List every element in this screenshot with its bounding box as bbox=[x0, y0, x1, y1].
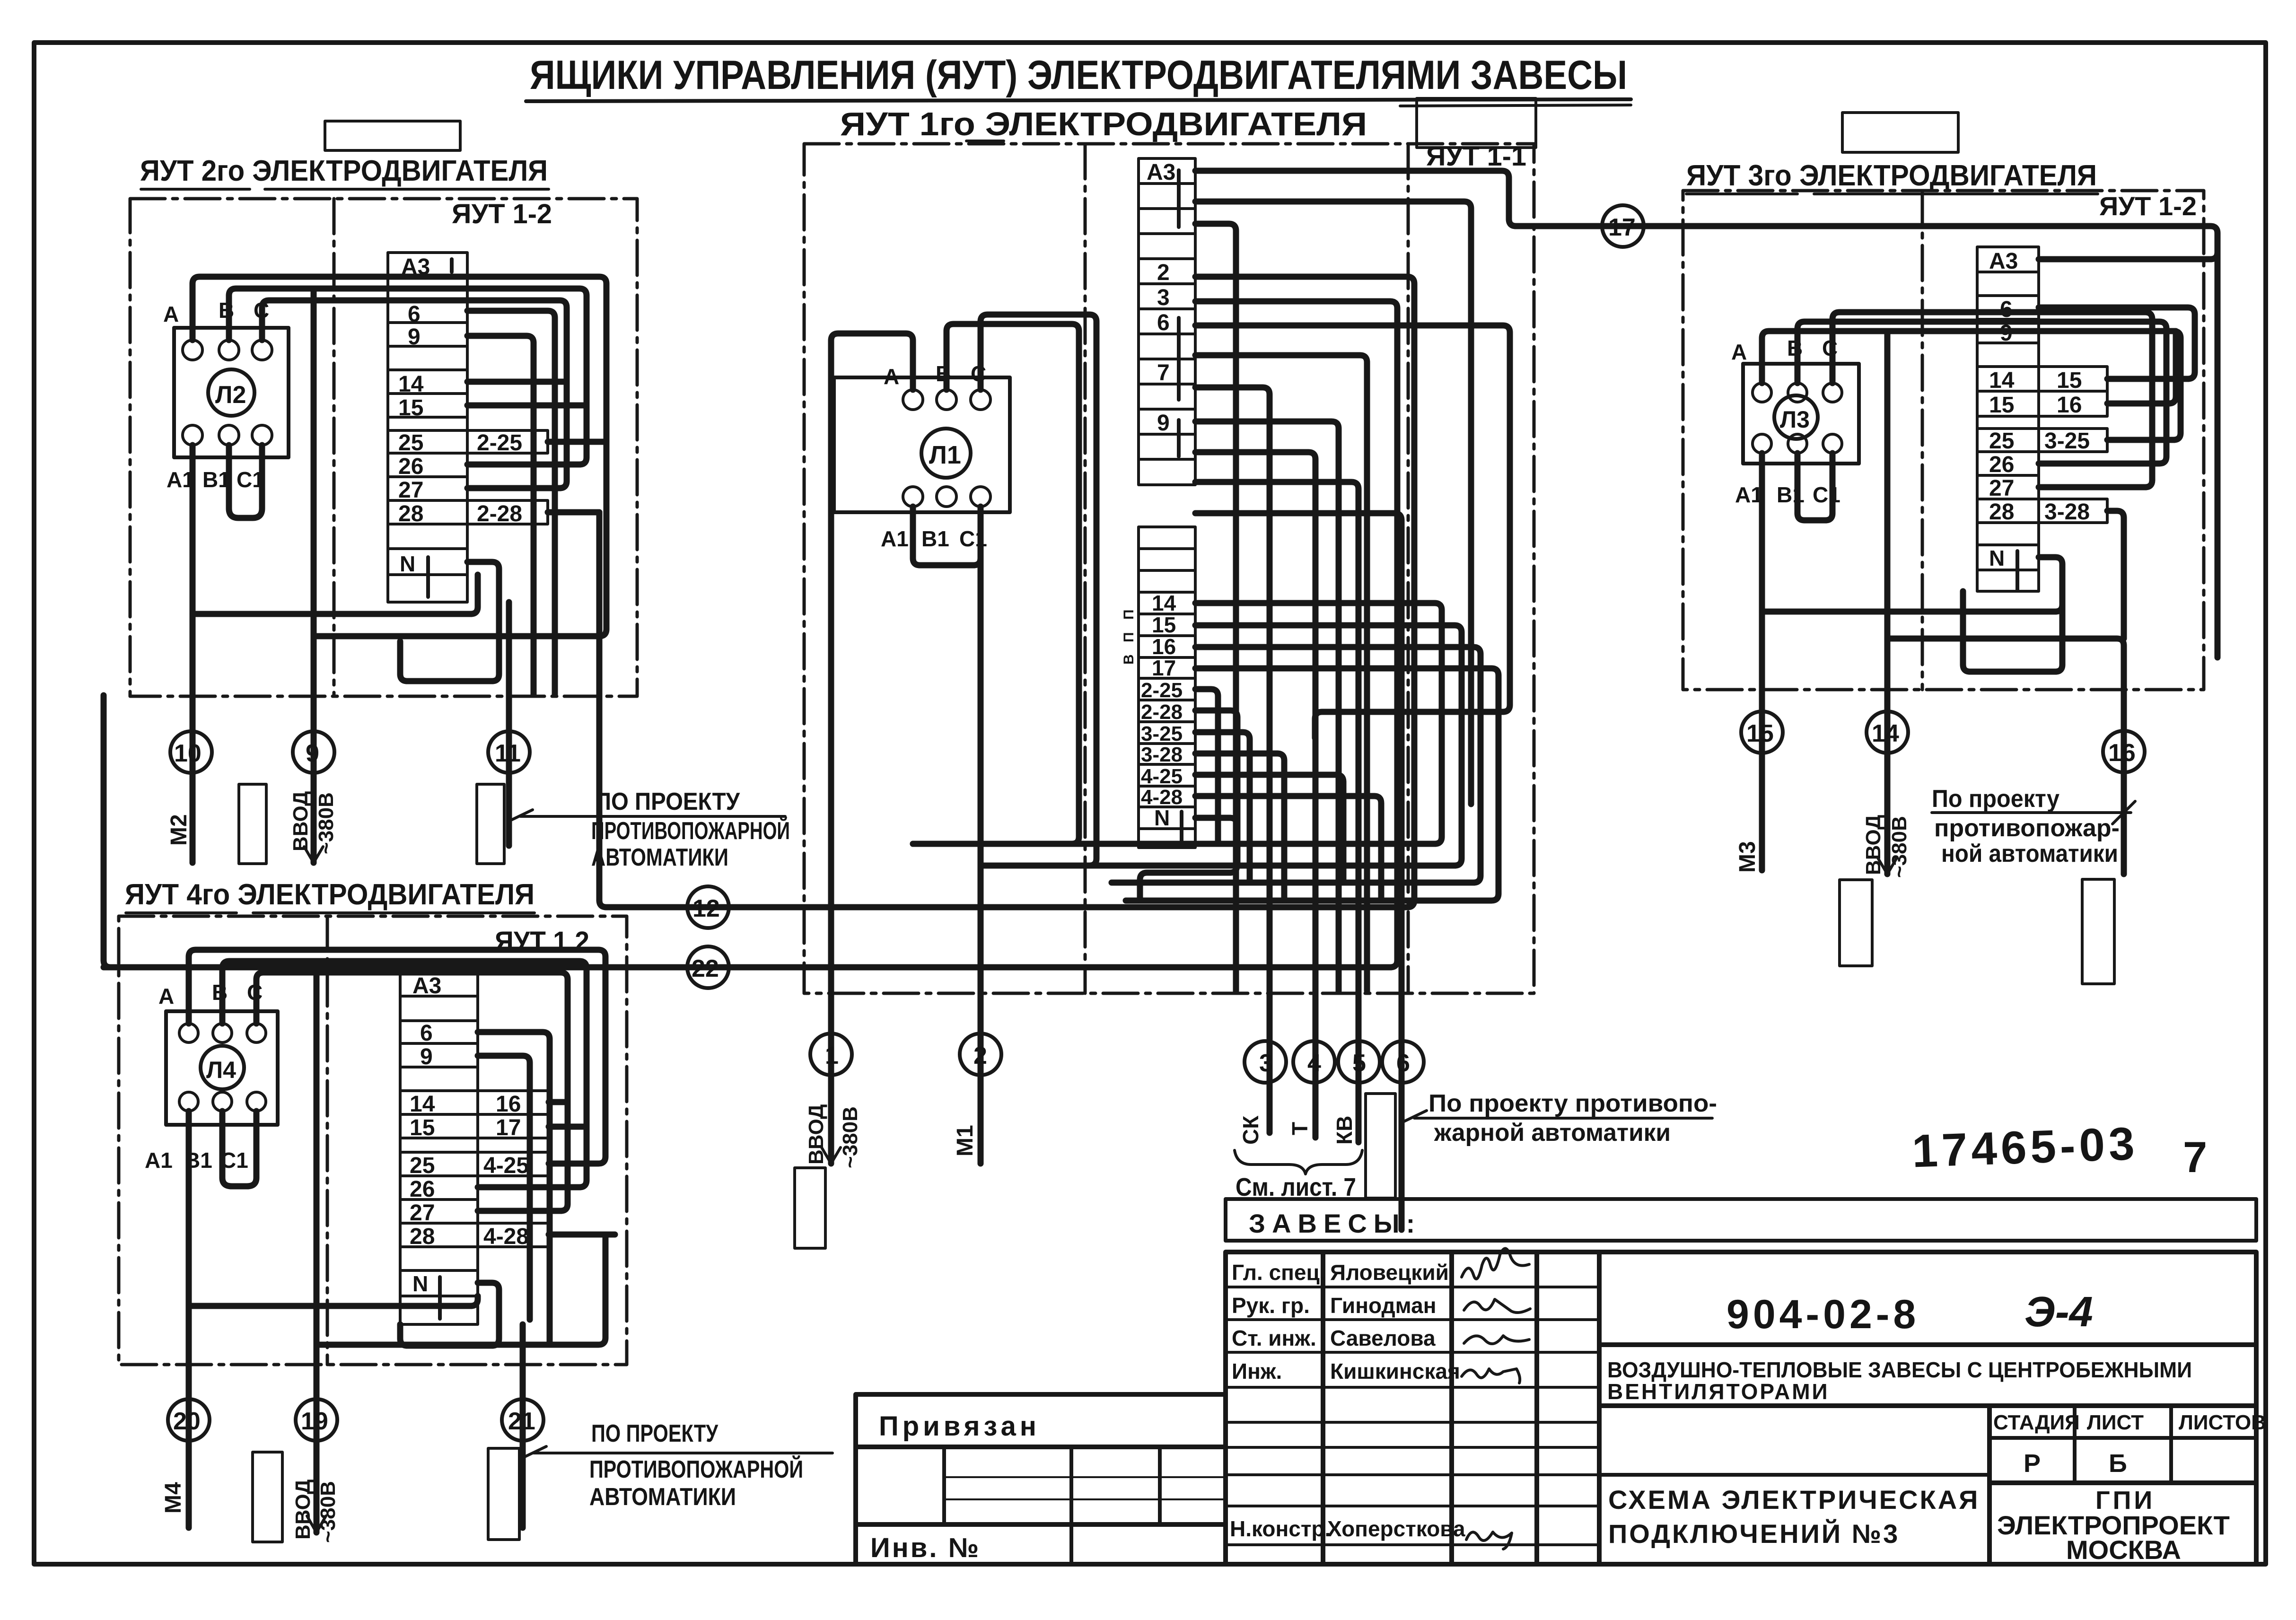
arrowhead VVOD 9 bbox=[304, 847, 323, 863]
motor L2 bottom pins bbox=[183, 425, 202, 445]
svg-text:ПО ПРОЕКТУ: ПО ПРОЕКТУ bbox=[591, 1420, 719, 1447]
svg-text:Яловецкий: Яловецкий bbox=[1330, 1260, 1449, 1285]
svg-text:27: 27 bbox=[410, 1200, 435, 1226]
motor L3 top pins bbox=[1753, 383, 1771, 402]
svg-text:11: 11 bbox=[495, 740, 521, 767]
motor L2 top pins bbox=[183, 340, 202, 360]
signature squiggles bbox=[1462, 1248, 1529, 1278]
wire col16 stub bbox=[549, 1099, 568, 1105]
motor L1 top pins bbox=[903, 390, 923, 410]
enclosure divider bbox=[326, 916, 329, 1365]
N jumper tick bbox=[426, 557, 430, 597]
wire B1 C1 tie bbox=[1797, 453, 1832, 520]
node circle 2 bbox=[960, 1033, 1001, 1075]
jumper cell 2-28 bbox=[467, 500, 548, 524]
svg-text:20: 20 bbox=[173, 1408, 201, 1435]
svg-text:А3: А3 bbox=[412, 973, 441, 998]
svg-text:Рук. гр.: Рук. гр. bbox=[1232, 1293, 1310, 1318]
svg-text:ВВОД: ВВОД bbox=[291, 1480, 315, 1540]
svg-text:ЯЩИКИ УПРАВЛЕНИЯ (ЯУТ) ЭЛЕКТРО: ЯЩИКИ УПРАВЛЕНИЯ (ЯУТ) ЭЛЕКТРОДВИГАТЕЛЯМ… bbox=[530, 53, 1627, 98]
node circle 11 bbox=[488, 731, 530, 773]
svg-text:Инв. №: Инв. № bbox=[870, 1532, 981, 1563]
svg-text:15: 15 bbox=[2057, 368, 2082, 393]
svg-text:28: 28 bbox=[398, 501, 423, 526]
wire stub 4-28 bbox=[1195, 796, 1381, 901]
svg-text:6: 6 bbox=[1157, 310, 1170, 335]
svg-text:Гинодман: Гинодман bbox=[1330, 1293, 1436, 1318]
sheet title row divider bbox=[1599, 1473, 1989, 1477]
svg-text:26: 26 bbox=[1989, 452, 2014, 477]
node circle 1 bbox=[810, 1033, 852, 1075]
wire net 17 horizontal bbox=[1535, 226, 2217, 657]
svg-text:ПРОТИВОПОЖАРНОЙ: ПРОТИВОПОЖАРНОЙ bbox=[591, 817, 790, 845]
svg-text:4-25: 4-25 bbox=[1141, 765, 1183, 788]
svg-text:6: 6 bbox=[1396, 1050, 1410, 1077]
svg-text:ЯУТ 1го ЭЛЕКТРОДВИГАТЕЛЯ: ЯУТ 1го ЭЛЕКТРОДВИГАТЕЛЯ bbox=[840, 105, 1367, 142]
N jumper tick bbox=[2016, 551, 2019, 590]
lower strip YAUT1-1 cells bbox=[1139, 527, 1195, 848]
wire phase B bus bbox=[222, 961, 587, 1187]
arrowhead VVOD 1 bbox=[822, 1147, 841, 1164]
wire stub 2-28 bbox=[1195, 710, 1237, 866]
wire phase A bus bbox=[189, 950, 605, 1164]
svg-text:ЛИСТОВ: ЛИСТОВ bbox=[2179, 1411, 2266, 1434]
node circle 12 bbox=[687, 886, 729, 928]
stage table rows bbox=[1989, 1436, 2256, 1440]
svg-text:А: А bbox=[158, 984, 174, 1008]
enclosure divider left bbox=[1084, 144, 1087, 993]
svg-text:2-25: 2-25 bbox=[477, 430, 522, 455]
motor L4 box bbox=[166, 1011, 278, 1125]
svg-text:15: 15 bbox=[1746, 720, 1774, 747]
svg-text:ЛИСТ: ЛИСТ bbox=[2087, 1411, 2144, 1434]
node circle 15 bbox=[1741, 711, 1783, 753]
svg-text:17: 17 bbox=[496, 1115, 521, 1140]
svg-text:ЗАВЕСЫ:: ЗАВЕСЫ: bbox=[1249, 1208, 1421, 1238]
svg-text:~380В: ~380В bbox=[316, 1481, 340, 1543]
svg-text:27: 27 bbox=[398, 478, 423, 503]
enclosure divider right bbox=[1407, 144, 1410, 993]
wire N hook lower strip bbox=[1140, 818, 1237, 901]
G_TITLES bbox=[325, 53, 1958, 152]
cable rect under 16 bbox=[2082, 879, 2114, 984]
leader underline to wire 21 bbox=[523, 1446, 833, 1458]
svg-text:А1: А1 bbox=[145, 1148, 173, 1173]
motor L1 box bbox=[834, 377, 1010, 512]
svg-text:2-28: 2-28 bbox=[477, 501, 522, 526]
svg-text:Б: Б bbox=[2109, 1449, 2127, 1478]
svg-text:2: 2 bbox=[1157, 260, 1170, 285]
svg-text:~380В: ~380В bbox=[315, 792, 338, 854]
svg-text:15: 15 bbox=[410, 1115, 435, 1140]
svg-text:3: 3 bbox=[1157, 285, 1170, 310]
G_YAUT2 bbox=[130, 155, 790, 871]
wire row14 stub bbox=[467, 379, 567, 385]
enclosure divider bbox=[1921, 191, 1924, 690]
svg-text:~380В: ~380В bbox=[839, 1106, 862, 1168]
svg-text:2: 2 bbox=[973, 1042, 987, 1069]
svg-text:26: 26 bbox=[410, 1177, 435, 1202]
svg-text:ЯУТ 2го ЭЛЕКТРОДВИГАТЕЛЯ: ЯУТ 2го ЭЛЕКТРОДВИГАТЕЛЯ bbox=[140, 155, 548, 187]
svg-text:ВВОД: ВВОД bbox=[805, 1104, 828, 1165]
A3 jumper tick bbox=[450, 259, 454, 272]
node circle 4 bbox=[1293, 1041, 1335, 1083]
N jumper tick lower bbox=[1180, 812, 1183, 845]
wire row17 long bbox=[1126, 668, 1499, 901]
node circle 9 bbox=[293, 731, 334, 773]
wire B1 C1 star tie bbox=[229, 445, 262, 518]
motor L3 box bbox=[1743, 364, 1859, 464]
wire row16 long bbox=[1112, 647, 1481, 883]
motor L3 circle bbox=[1774, 395, 1818, 439]
svg-text:По проекту: По проекту bbox=[1932, 785, 2059, 813]
wire upper row b2 left vertical bbox=[1195, 224, 1236, 991]
svg-text:3-25: 3-25 bbox=[1141, 722, 1183, 745]
svg-text:9: 9 bbox=[306, 740, 319, 767]
svg-text:17: 17 bbox=[1152, 656, 1176, 680]
wire col17 stub bbox=[549, 1124, 587, 1130]
inv no row bbox=[856, 1522, 1226, 1527]
svg-text:С1: С1 bbox=[1813, 482, 1840, 507]
arrowhead VVOD 14 bbox=[1878, 858, 1897, 874]
wire phase B loop bbox=[913, 324, 1079, 844]
wire horizontal link h2761 bbox=[189, 1296, 478, 1306]
wire row6 stub down (yaut4) bbox=[478, 1032, 550, 1345]
svg-text:Ст. инж.: Ст. инж. bbox=[1232, 1326, 1316, 1350]
enclosure box ЯУТ-1 (dash-dot) bbox=[804, 144, 1534, 993]
terminal strip YAUT1-2 cells bbox=[388, 253, 548, 602]
paired cell 14|15 bbox=[2039, 367, 2107, 391]
svg-text:В: В bbox=[1121, 654, 1137, 665]
svg-text:6: 6 bbox=[408, 302, 421, 327]
cable rect circle6 bbox=[1366, 1094, 1395, 1198]
svg-text:СТАДИЯ: СТАДИЯ bbox=[1993, 1411, 2080, 1434]
svg-text:А: А bbox=[163, 302, 179, 326]
privyazan thin rows bbox=[944, 1476, 1226, 1478]
node circle 5 bbox=[1338, 1041, 1380, 1083]
svg-text:Привязан: Привязан bbox=[879, 1411, 1040, 1442]
svg-text:9: 9 bbox=[420, 1044, 433, 1069]
svg-text:3-28: 3-28 bbox=[1141, 743, 1183, 766]
svg-text:Р: Р bbox=[2024, 1449, 2041, 1478]
wire upper row b4 vertical bbox=[1195, 421, 1339, 991]
svg-text:Э-4: Э-4 bbox=[2024, 1288, 2093, 1336]
leader underline to wire 16 bbox=[1932, 801, 2135, 824]
wire h1293 link bbox=[1762, 570, 2062, 612]
svg-text:Л2: Л2 bbox=[215, 381, 246, 409]
terminal strip cells (yaut4) bbox=[400, 972, 549, 1324]
wire phase A bus bbox=[1762, 331, 2181, 440]
wire N hook under strip bbox=[400, 1283, 499, 1346]
svg-text:А1: А1 bbox=[1735, 482, 1763, 507]
cable rect line 11 bbox=[477, 784, 504, 864]
svg-text:4-25: 4-25 bbox=[483, 1153, 529, 1178]
svg-text:2-25: 2-25 bbox=[1141, 679, 1183, 702]
svg-text:А1: А1 bbox=[881, 526, 909, 551]
motor L2 box bbox=[174, 328, 289, 457]
wire phase A top bus bbox=[193, 277, 606, 636]
svg-text:ЯУТ 1-1: ЯУТ 1-1 bbox=[1426, 141, 1526, 172]
svg-text:А: А bbox=[1731, 340, 1747, 364]
svg-text:СХЕМА ЭЛЕКТРИЧЕСКАЯ: СХЕМА ЭЛЕКТРИЧЕСКАЯ bbox=[1608, 1485, 1980, 1515]
wire phase C bus bbox=[1832, 312, 2152, 487]
svg-text:15: 15 bbox=[1989, 393, 2014, 418]
wire row15 long to left bus bbox=[981, 625, 1462, 866]
node circle 21 bbox=[502, 1399, 543, 1441]
G_MIDDLE bbox=[104, 171, 2217, 1532]
wire row7 to circle 3 bbox=[1195, 387, 1270, 1133]
svg-text:ПОДКЛЮЧЕНИЙ №3: ПОДКЛЮЧЕНИЙ №3 bbox=[1608, 1519, 1900, 1549]
svg-text:М1: М1 bbox=[953, 1125, 978, 1156]
wire row6 return loop bbox=[1195, 325, 1510, 738]
svg-text:ЯУТ 3го ЭЛЕКТРОДВИГАТЕЛЯ: ЯУТ 3го ЭЛЕКТРОДВИГАТЕЛЯ bbox=[1686, 159, 2097, 192]
wire strip bottom to circle 11 bbox=[506, 602, 512, 846]
svg-text:904-02-8: 904-02-8 bbox=[1726, 1292, 1919, 1337]
motor L1 bottom pins bbox=[903, 487, 923, 507]
svg-text:П: П bbox=[1121, 609, 1137, 620]
enclosure box ЯУТ-3 (dash-dot) bbox=[1683, 191, 2204, 690]
svg-text:16: 16 bbox=[2057, 393, 2082, 418]
paired cell 3-25 bbox=[2039, 429, 2107, 452]
svg-text:25: 25 bbox=[1989, 429, 2014, 454]
wire row9 stub down bbox=[467, 336, 534, 694]
node circle 3 bbox=[1244, 1041, 1286, 1083]
wire N hook under strip bbox=[1963, 557, 2062, 672]
svg-text:АВТОМАТИКИ: АВТОМАТИКИ bbox=[591, 844, 728, 871]
svg-text:28: 28 bbox=[410, 1224, 435, 1249]
wire stub 4-25 bbox=[1195, 775, 1343, 883]
svg-text:26: 26 bbox=[398, 454, 423, 479]
paired cell 4-28 bbox=[478, 1223, 549, 1247]
svg-text:Л3: Л3 bbox=[1780, 406, 1810, 433]
motor L3 bottom pins bbox=[1753, 434, 1771, 453]
underline under го bbox=[966, 140, 1004, 142]
svg-text:12: 12 bbox=[692, 895, 720, 922]
wire 2-28 jumper out bbox=[548, 509, 599, 516]
svg-text:МОСКВА: МОСКВА bbox=[2066, 1535, 2181, 1565]
node circle 10 bbox=[170, 731, 212, 773]
stamp rectangle top-middle bbox=[1417, 98, 1536, 148]
wire phase A of motor L1 to VVOD (circle 1) bbox=[831, 333, 913, 1164]
paired cell 16 bbox=[478, 1091, 549, 1114]
svg-text:А3: А3 bbox=[1989, 249, 2018, 274]
svg-text:ВЕНТИЛЯТОРАМИ: ВЕНТИЛЯТОРАМИ bbox=[1607, 1379, 1830, 1404]
svg-text:Гл. спец.: Гл. спец. bbox=[1232, 1260, 1326, 1285]
main table verticals bbox=[1321, 1252, 1325, 1564]
wire N hook under strip bbox=[400, 562, 499, 681]
svg-text:15: 15 bbox=[398, 395, 423, 420]
svg-text:15: 15 bbox=[1152, 613, 1176, 637]
svg-text:М4: М4 bbox=[161, 1482, 186, 1514]
svg-text:ной автоматики: ной автоматики bbox=[1941, 840, 2118, 867]
paired cell 4-25 bbox=[478, 1152, 549, 1176]
svg-text:противопожар-: противопожар- bbox=[1934, 814, 2120, 842]
terminal strip right cells bbox=[1977, 247, 2107, 591]
arrowhead VVOD 19 bbox=[307, 1516, 326, 1532]
G_TITLEBLOCK bbox=[856, 1117, 2266, 1565]
svg-text:АВТОМАТИКИ: АВТОМАТИКИ bbox=[589, 1483, 736, 1511]
svg-text:14: 14 bbox=[398, 372, 424, 397]
svg-text:Л1: Л1 bbox=[929, 441, 961, 469]
svg-text:27: 27 bbox=[1989, 476, 2014, 501]
wire row9 to circle 4 bbox=[1195, 452, 1315, 1138]
node circle 16 bbox=[2103, 731, 2145, 772]
svg-text:16: 16 bbox=[2108, 739, 2136, 767]
wire 3-28 to 16 riser bbox=[2107, 511, 2124, 639]
G_YAUT1 bbox=[804, 141, 1534, 1164]
paired cell 3-28 bbox=[2039, 499, 2107, 523]
svg-text:7: 7 bbox=[1157, 360, 1170, 385]
svg-text:4-28: 4-28 bbox=[483, 1224, 529, 1249]
svg-text:N: N bbox=[412, 1271, 428, 1296]
svg-text:ПРОТИВОПОЖАРНОЙ: ПРОТИВОПОЖАРНОЙ bbox=[589, 1455, 803, 1483]
wire 2-25 jumper out bbox=[548, 439, 606, 445]
svg-text:П: П bbox=[1121, 632, 1137, 642]
svg-text:17: 17 bbox=[1608, 214, 1636, 241]
svg-text:Н.констр.: Н.констр. bbox=[1230, 1516, 1331, 1541]
svg-text:14: 14 bbox=[1872, 720, 1899, 747]
motor L4 circle bbox=[201, 1046, 244, 1089]
wire phase C bus bbox=[256, 972, 568, 1211]
svg-text:3-25: 3-25 bbox=[2044, 429, 2090, 454]
wire net17 into A3 row bbox=[2039, 252, 2217, 259]
stage table verticals bbox=[1987, 1406, 1992, 1564]
svg-text:СК: СК bbox=[1238, 1115, 1263, 1145]
jumper cell 2-25 bbox=[467, 430, 548, 453]
svg-text:По проекту противопо-: По проекту противопо- bbox=[1428, 1090, 1717, 1117]
svg-text:19: 19 bbox=[301, 1408, 328, 1435]
svg-text:ЯУТ 1-2: ЯУТ 1-2 bbox=[452, 199, 552, 229]
wire row14 long to left bus bbox=[913, 603, 1442, 844]
svg-text:А: А bbox=[884, 364, 899, 389]
svg-text:28: 28 bbox=[1989, 499, 2014, 525]
jumper ticks upper strip bbox=[1177, 170, 1181, 227]
paired cell 15|16 bbox=[2039, 391, 2107, 416]
svg-text:10: 10 bbox=[174, 740, 202, 767]
svg-text:3-28: 3-28 bbox=[2044, 499, 2090, 525]
wire phase C top bus bbox=[262, 300, 567, 488]
svg-text:9: 9 bbox=[408, 324, 421, 350]
wire net 12 elbow from yaut2 bbox=[599, 512, 606, 907]
upper strip YAUT1-1 cells bbox=[1139, 158, 1195, 485]
cable rect left of VVOD9 bbox=[239, 784, 266, 864]
wire A1 down to M3 (circle 15) bbox=[1759, 453, 1765, 870]
wire row2 to net 12 bbox=[606, 277, 1414, 907]
cable rect near 19 bbox=[253, 1452, 282, 1542]
wire phase C loop bbox=[981, 315, 1096, 866]
svg-text:2-28: 2-28 bbox=[1141, 701, 1183, 724]
svg-text:16: 16 bbox=[496, 1092, 521, 1117]
stamp rectangle top-left bbox=[325, 121, 460, 150]
wire row6 jumper bbox=[2039, 307, 2195, 379]
node circle 17 bbox=[1602, 205, 1644, 247]
motor L2 circle bbox=[208, 369, 254, 416]
svg-text:4: 4 bbox=[1307, 1050, 1321, 1077]
wire B1 C1 star tie bbox=[222, 1111, 256, 1186]
enclosure box ЯУТ-2 (dash-dot) bbox=[130, 199, 637, 696]
svg-text:25: 25 bbox=[398, 430, 423, 455]
svg-text:ЯУТ 1-2: ЯУТ 1-2 bbox=[2099, 191, 2197, 221]
wire A1 down to M4 (circle 20) bbox=[186, 1111, 192, 1528]
N jumper tick bbox=[438, 1277, 442, 1319]
wire A1 B1 tie bbox=[913, 507, 981, 565]
wire upper row b3 vertical bbox=[1195, 355, 1367, 991]
svg-text:ЯУТ 4го ЭЛЕКТРОДВИГАТЕЛЯ: ЯУТ 4го ЭЛЕКТРОДВИГАТЕЛЯ bbox=[125, 878, 535, 911]
svg-text:В1: В1 bbox=[921, 526, 949, 551]
wire stub 3-28 bbox=[1195, 753, 1284, 901]
svg-text:22: 22 bbox=[692, 955, 719, 982]
wire A1 down to M2 bbox=[190, 445, 196, 863]
wire row9 jumper bbox=[2039, 331, 2176, 403]
cable rect under VVOD14 bbox=[1840, 880, 1872, 966]
svg-text:ВВОД: ВВОД bbox=[289, 791, 312, 851]
wire C1 down to M1 (circle 2) bbox=[978, 507, 984, 1164]
privyazan header row bbox=[856, 1445, 1226, 1449]
wire upper strip bottom stub to circle 6 bbox=[1195, 513, 1402, 1230]
motor L4 top pins bbox=[179, 1024, 198, 1042]
svg-text:21: 21 bbox=[508, 1408, 535, 1435]
wire horizontal link h2843 bbox=[316, 1235, 605, 1345]
main table outer bbox=[1226, 1252, 2256, 1564]
wire row15 stub bbox=[467, 403, 587, 409]
leader underline to wire 6 bbox=[1403, 1111, 1712, 1122]
paired cell 17 bbox=[478, 1114, 549, 1138]
svg-text:М3: М3 bbox=[1735, 841, 1760, 873]
svg-text:5: 5 bbox=[1352, 1050, 1366, 1077]
wire phase B top bus bbox=[229, 289, 587, 464]
wire 4-28 jumper out bbox=[549, 1232, 615, 1238]
svg-text:жарной автоматики: жарной автоматики bbox=[1434, 1119, 1671, 1147]
svg-text:N: N bbox=[1154, 806, 1170, 830]
svg-text:Л4: Л4 bbox=[206, 1057, 236, 1083]
svg-text:Савелова: Савелова bbox=[1330, 1326, 1436, 1350]
svg-text:Хоперсткова: Хоперсткова bbox=[1327, 1516, 1465, 1541]
wire stub 2-25 bbox=[1195, 689, 1218, 844]
svg-text:17465-03: 17465-03 bbox=[1911, 1117, 2139, 1177]
wire upper row b5 to circle 5 bbox=[1195, 482, 1358, 1142]
node circle 6 bbox=[1382, 1041, 1424, 1083]
cable rect near 21 bbox=[488, 1448, 519, 1540]
wire net 22 left elbow bbox=[104, 695, 111, 967]
cable rect circle1 bbox=[795, 1168, 825, 1248]
svg-text:Инж.: Инж. bbox=[1232, 1359, 1282, 1384]
main title underline bbox=[526, 99, 1631, 101]
svg-text:КВ: КВ bbox=[1332, 1116, 1357, 1145]
motor L4 bottom pins bbox=[179, 1092, 198, 1111]
svg-text:9: 9 bbox=[1157, 411, 1170, 436]
wire upper row b1 long vertical bbox=[1195, 201, 1471, 804]
node circle 19 bbox=[296, 1399, 337, 1441]
svg-text:N: N bbox=[1989, 546, 2005, 570]
wire strip bottom to circle 21 bbox=[520, 1324, 526, 1528]
svg-text:7: 7 bbox=[2183, 1133, 2207, 1182]
enclosure box ЯУТ-4 (dash-dot) bbox=[119, 916, 627, 1365]
wire row9 stub down (yaut4) bbox=[478, 1056, 530, 1320]
brace see sheet 7 bbox=[1235, 1150, 1362, 1174]
svg-text:М2: М2 bbox=[167, 814, 192, 846]
svg-text:N: N bbox=[400, 552, 415, 576]
G_YAUT4 bbox=[119, 878, 833, 1543]
left small table (privyazan) bbox=[856, 1394, 1226, 1564]
node circle 22 bbox=[687, 946, 729, 988]
svg-text:ВОЗДУШНО-ТЕПЛОВЫЕ ЗАВЕСЫ С ЦЕН: ВОЗДУШНО-ТЕПЛОВЫЕ ЗАВЕСЫ С ЦЕНТРОБЕЖНЫМИ bbox=[1607, 1357, 2192, 1382]
svg-text:1: 1 bbox=[825, 1042, 839, 1069]
left rows bbox=[1226, 1287, 1599, 1545]
svg-text:3: 3 bbox=[1259, 1050, 1273, 1077]
wire VVOD down (circle 9) bbox=[311, 289, 317, 863]
svg-text:ПО ПРОЕКТУ: ПО ПРОЕКТУ bbox=[595, 788, 740, 815]
wire phase B bus bbox=[1797, 322, 2166, 464]
